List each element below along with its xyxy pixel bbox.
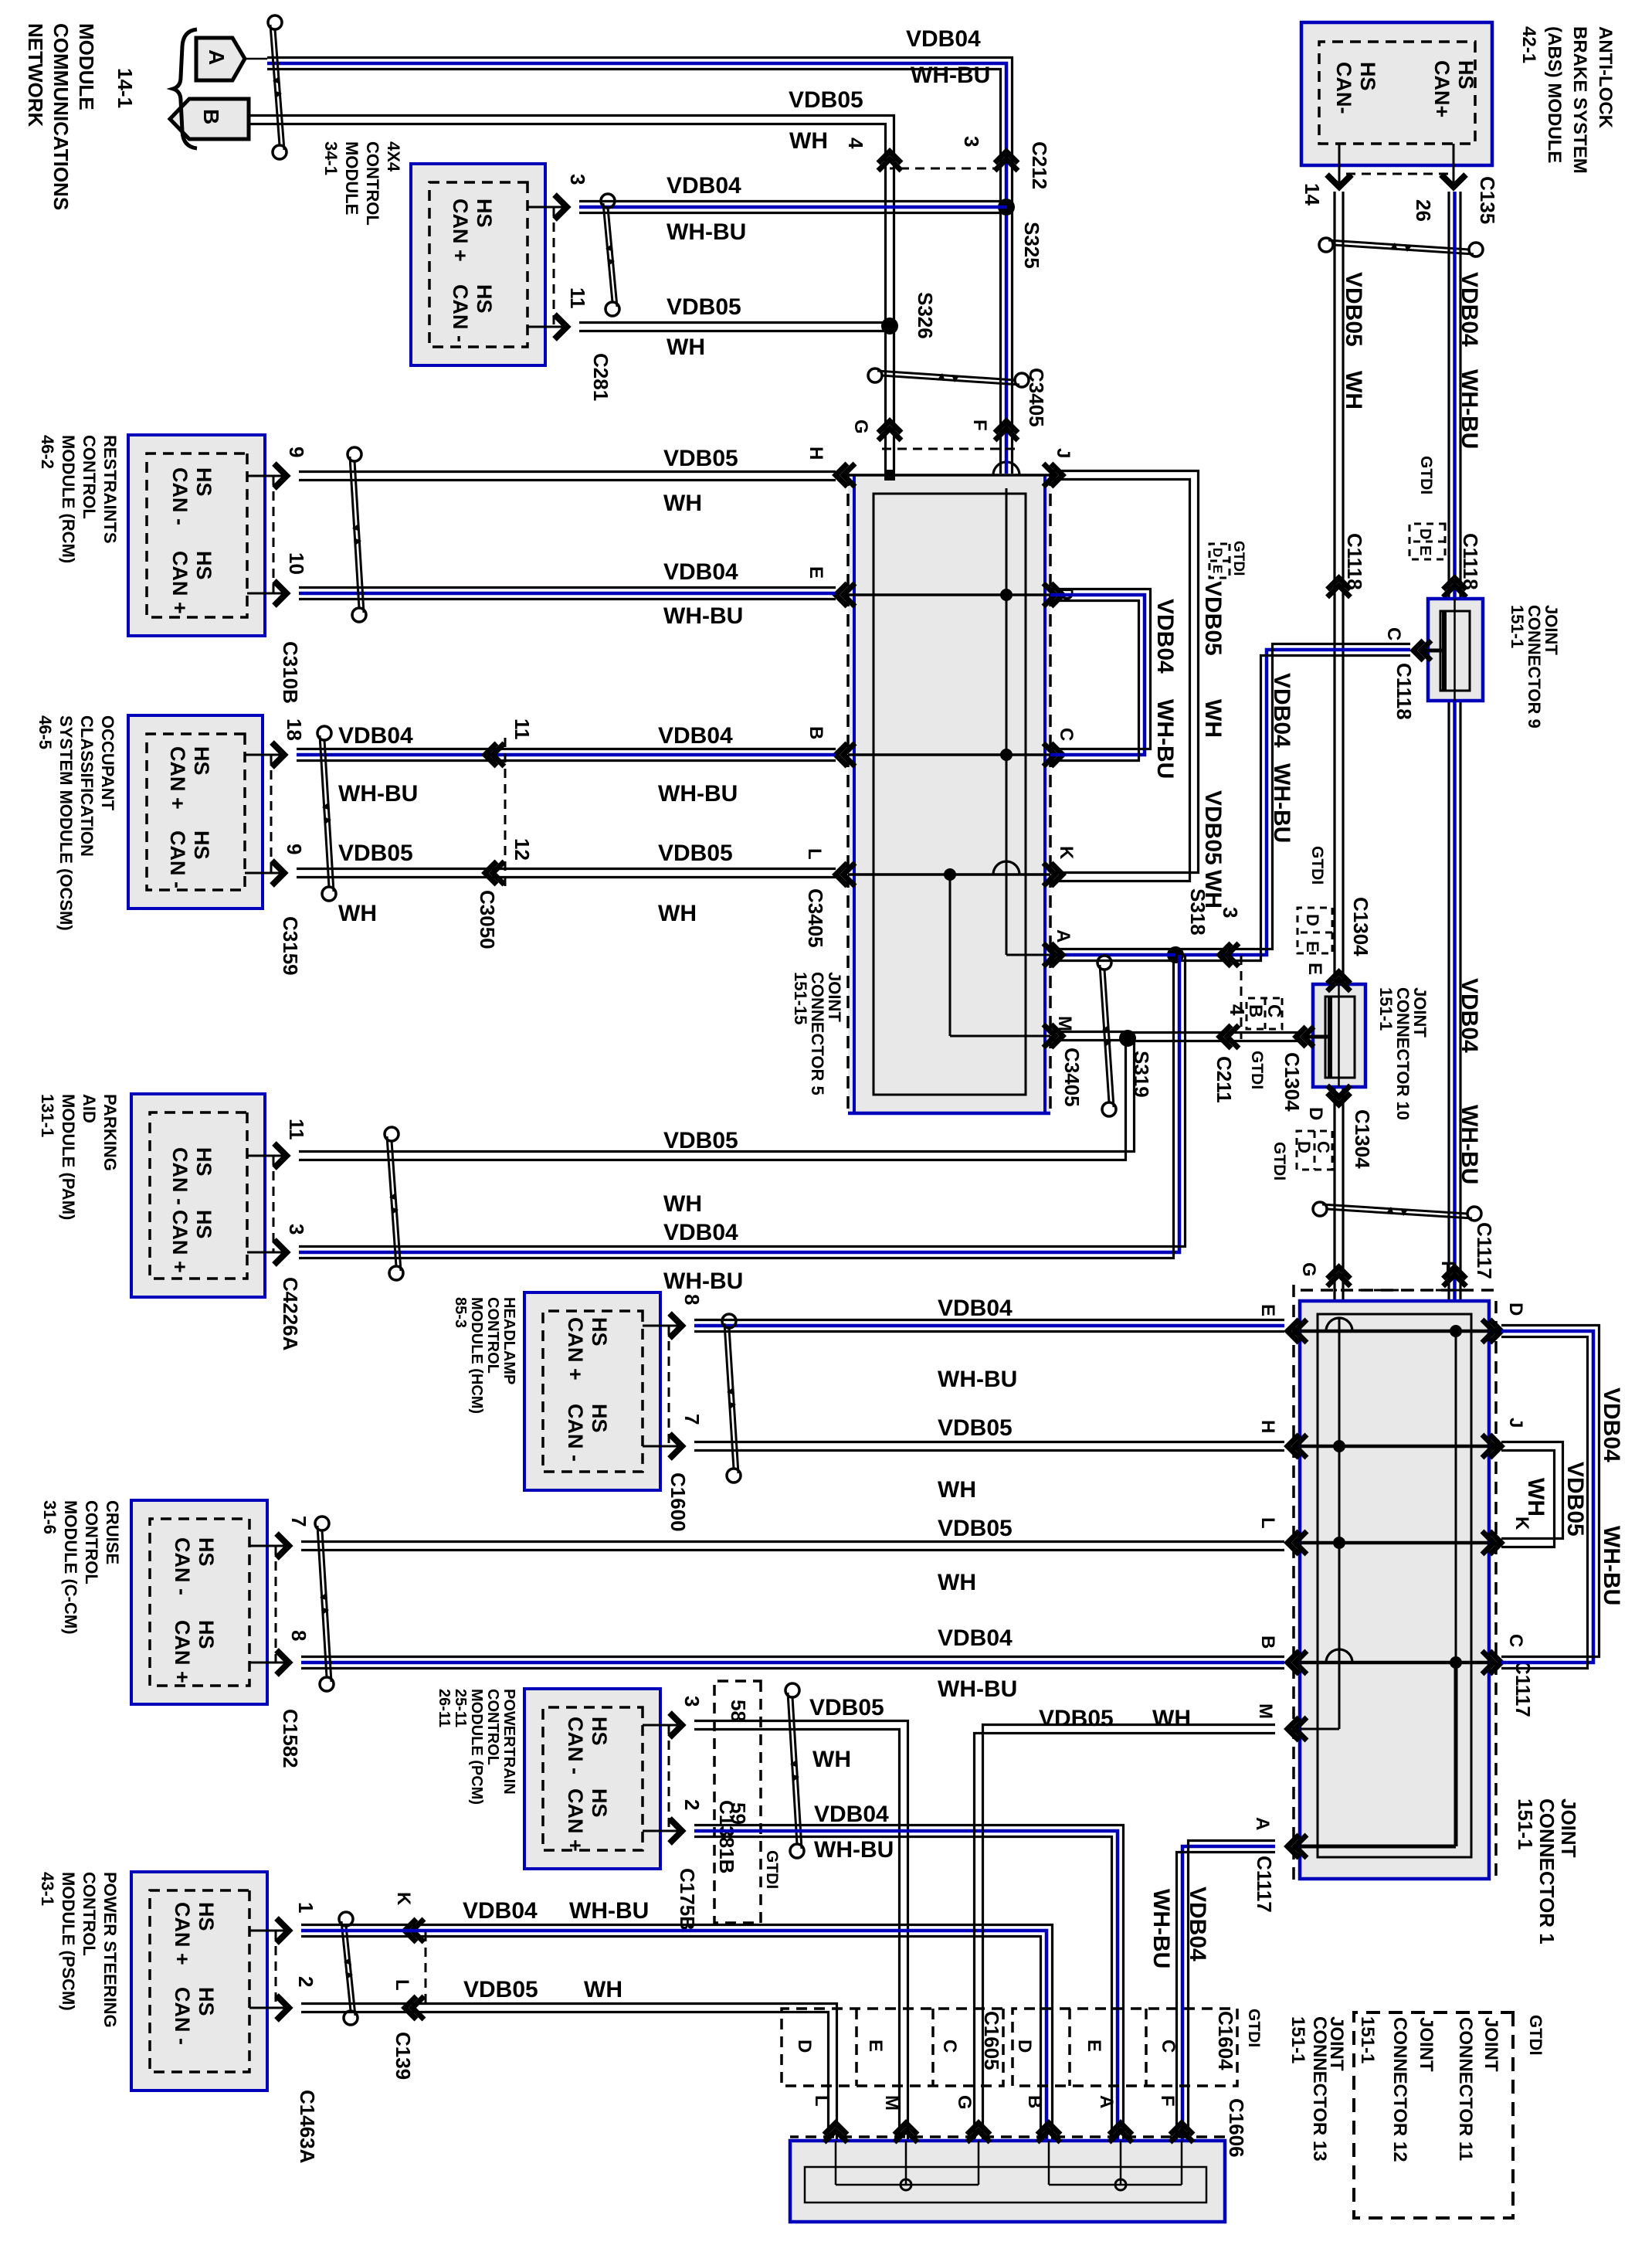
svg-text:C1605: C1605 [980, 2011, 1003, 2070]
svg-text:JOINT: JOINT [1416, 2017, 1437, 2072]
svg-text:9: 9 [285, 447, 308, 457]
svg-text:WH-BU: WH-BU [663, 1269, 743, 1294]
connector C1605 dashed box [782, 2009, 1003, 2086]
svg-text:JOINT: JOINT [1481, 2017, 1501, 2072]
svg-text:M: M [1255, 1703, 1276, 1719]
joint connector 5 internal line to M [949, 875, 952, 1036]
bowtie on RCM wires [348, 447, 361, 461]
dashed line at JC1 left entry [1334, 1289, 1460, 1292]
svg-text:VDB05: VDB05 [1039, 1706, 1114, 1731]
svg-text:D: D [1303, 914, 1322, 926]
svg-text:58: 58 [727, 1700, 750, 1722]
svg-text:HS: HS [195, 1987, 218, 2016]
wire VDB05 loop JC5-J to JC5-K [1050, 480, 1190, 881]
svg-text:14-1: 14-1 [114, 68, 137, 108]
svg-text:CONNECTOR 11: CONNECTOR 11 [1455, 2017, 1476, 2161]
svg-text:JOINT: JOINT [1557, 1798, 1580, 1858]
connector C3405 dashed line [882, 448, 1015, 450]
svg-text:C1117: C1117 [1473, 1222, 1496, 1279]
svg-text:CAN +: CAN + [171, 1902, 194, 1965]
svg-text:CONTROL: CONTROL [484, 1297, 501, 1374]
svg-text:GTDI: GTDI [1245, 2009, 1263, 2047]
svg-text:WH: WH [1341, 371, 1366, 409]
svg-text:WH-BU: WH-BU [658, 781, 738, 807]
joint connector 1 link H-L-M row [1338, 1318, 1341, 1729]
svg-text:VDB04: VDB04 [463, 1898, 538, 1924]
svg-text:CAN +: CAN + [168, 551, 192, 614]
bowtie on HCM wires [722, 1314, 736, 1328]
joint connector 5 left bus H-J [848, 474, 1050, 477]
svg-text:CAN -: CAN - [168, 1147, 192, 1205]
svg-text:WH-BU: WH-BU [663, 603, 743, 629]
svg-text:CAN +: CAN + [166, 746, 189, 810]
svg-text:WH: WH [658, 901, 697, 926]
joint connector 1 bus H-J [1300, 1445, 1489, 1449]
svg-text:HS: HS [195, 1620, 218, 1649]
svg-text:C1117: C1117 [1253, 1856, 1276, 1913]
connector C211 dashed line [1240, 956, 1243, 1039]
wire VDB04 JC9-C to S318 via C211-3 [1179, 650, 1410, 955]
joint connector 11/12/13 box [790, 2141, 1225, 2222]
svg-text:CAN -: CAN - [449, 284, 472, 342]
connector C3405 bowtie on M wire [1097, 956, 1111, 970]
svg-text:43-1: 43-1 [38, 1872, 57, 1906]
wire VDB05 PSCM-2 to bottom JC box L [301, 2012, 829, 2141]
svg-text:HS: HS [192, 551, 215, 580]
svg-text:VDB05: VDB05 [938, 1415, 1013, 1441]
bottom box dashed line [790, 2135, 1225, 2138]
svg-text:CONNECTOR 1: CONNECTOR 1 [1535, 1798, 1559, 1944]
svg-text:J: J [1505, 1418, 1526, 1428]
svg-text:2: 2 [294, 1976, 317, 1987]
svg-text:CAN +: CAN + [168, 1210, 192, 1273]
svg-text:G: G [1298, 1262, 1319, 1277]
svg-text:CLASSIFICATION: CLASSIFICATION [77, 715, 97, 857]
joint connector 9 box [1428, 599, 1483, 701]
svg-text:11: 11 [566, 287, 589, 309]
wire VDB04 from connector-A to S325/F row [267, 63, 1006, 474]
brace for module communications network [173, 29, 197, 148]
svg-text:WH: WH [663, 1191, 702, 1217]
bowtie on PCM wires [785, 1683, 799, 1697]
svg-text:HS: HS [588, 1317, 611, 1347]
connector C139 dashed line [425, 1932, 427, 2002]
connector bowtie on ABS wires [1469, 243, 1483, 256]
svg-text:WH: WH [789, 128, 828, 154]
svg-text:C211: C211 [1213, 1056, 1236, 1103]
connector B flag [170, 99, 249, 139]
svg-text:C: C [1314, 1141, 1333, 1153]
connector C1604 dashed box [1013, 2009, 1237, 2086]
joint connector 5 junction dots [1000, 589, 1013, 601]
svg-text:25-11: 25-11 [452, 1689, 469, 1727]
connector C1118-E arrow on w14 [1328, 578, 1351, 589]
splice S319 [1119, 1030, 1136, 1047]
svg-text:M: M [881, 2095, 902, 2111]
bottom box pins [824, 2123, 847, 2135]
svg-text:L: L [804, 848, 825, 860]
svg-text:(ABS) MODULE: (ABS) MODULE [1544, 26, 1565, 163]
bowtie on 4X4 wires [601, 194, 615, 208]
svg-text:VDB05: VDB05 [658, 841, 733, 866]
connector C135 dashed line [1345, 173, 1448, 175]
wire VDB05 PCM-3 to bottom JC box M [694, 1730, 900, 2141]
svg-text:OCCUPANT: OCCUPANT [98, 715, 117, 811]
svg-text:26: 26 [1412, 199, 1435, 222]
svg-text:G: G [850, 419, 871, 434]
module HCM connector dashed line [668, 1326, 670, 1446]
svg-text:8: 8 [680, 1294, 704, 1305]
GTDI D/E dashed box C1304 [1298, 908, 1332, 953]
svg-text:3: 3 [680, 1696, 704, 1707]
svg-text:MODULE (HCM): MODULE (HCM) [468, 1297, 485, 1414]
svg-text:B: B [1257, 1635, 1278, 1649]
wire VDB05 OCSM-9 to JC5-L [297, 876, 836, 878]
svg-text:HS: HS [588, 1717, 611, 1746]
connector A flag [196, 38, 245, 80]
svg-text:151-1: 151-1 [1357, 2016, 1378, 2063]
svg-text:E: E [806, 566, 826, 579]
module OCSM connector dashed line [270, 755, 273, 873]
svg-text:MODULE (RCM): MODULE (RCM) [59, 435, 78, 563]
joint connector 1 inner rect [1318, 1314, 1471, 1857]
svg-text:M: M [1054, 1016, 1075, 1031]
splice S318 [1167, 946, 1184, 963]
svg-text:CONTROL: CONTROL [484, 1689, 501, 1765]
svg-text:E: E [1303, 941, 1322, 953]
connector C3405-G arrow [878, 421, 901, 433]
svg-text:8: 8 [287, 1630, 310, 1641]
svg-text:C3159: C3159 [279, 916, 302, 976]
svg-text:S326: S326 [914, 292, 937, 339]
joint connector 9 stub to C1118-C [1424, 649, 1444, 653]
svg-text:31-6: 31-6 [40, 1500, 59, 1534]
connector C212-3 arrow [995, 151, 1018, 163]
svg-text:VDB04: VDB04 [938, 1296, 1013, 1321]
module PAM box [131, 1094, 265, 1297]
svg-text:GTDI: GTDI [763, 1850, 781, 1889]
wire VDB04 S318 branch to PAM-3 [299, 955, 1179, 1252]
svg-text:GTDI: GTDI [1526, 2015, 1545, 2056]
wire VDB04 loop JC5-D to JC5-C [1050, 595, 1145, 755]
svg-text:WH-BU: WH-BU [1457, 369, 1482, 449]
svg-text:C1600: C1600 [667, 1472, 690, 1532]
connector C1304-D arrow on w14 (right of JC10) [1328, 1093, 1351, 1105]
bowtie on PAM wires [385, 1127, 399, 1141]
svg-text:CAN +: CAN + [564, 1317, 587, 1381]
svg-text:HS: HS [473, 199, 496, 228]
svg-text:11: 11 [285, 1119, 308, 1140]
module PCM connector dashed line [668, 1725, 670, 1831]
svg-text:A: A [1252, 1817, 1273, 1830]
svg-text:WH-BU: WH-BU [338, 781, 418, 807]
wire VDB04 OCSM-18 to JC5-B [297, 753, 836, 757]
module RCM box [128, 435, 265, 636]
svg-text:34-1: 34-1 [321, 141, 341, 175]
svg-text:MODULE (PCM): MODULE (PCM) [468, 1689, 485, 1805]
svg-text:C: C [1505, 1634, 1526, 1647]
wire VDB05 M-row JC5-M to S319 [1050, 1039, 1128, 1041]
joint connector 5 pins top J D C K A M [1051, 464, 1063, 487]
svg-text:WH: WH [338, 901, 377, 926]
wire VDB05 ABS pin14 to JC1-G (w14 bus) [1333, 192, 1335, 1301]
svg-text:CONTROL: CONTROL [80, 1872, 99, 1956]
joint connector 5 bus L-K [848, 873, 1050, 876]
svg-text:G: G [954, 2095, 975, 2110]
svg-text:WH: WH [1200, 699, 1226, 738]
svg-text:MODULE (C-CM): MODULE (C-CM) [61, 1500, 80, 1635]
svg-text:PARKING: PARKING [100, 1094, 120, 1171]
wire VDB04 loop JC1-D to JC1-C [1501, 1331, 1593, 1663]
joint connector 5 square tap G [884, 470, 895, 481]
wire VDB05 loop JC1-J to JC1-K [1501, 1451, 1555, 1547]
svg-text:CONNECTOR 12: CONNECTOR 12 [1389, 2017, 1410, 2162]
svg-text:WH: WH [938, 1570, 976, 1595]
svg-text:BRAKE SYSTEM: BRAKE SYSTEM [1569, 26, 1590, 174]
svg-text:C1582: C1582 [279, 1709, 302, 1768]
svg-text:F: F [969, 419, 990, 431]
svg-text:3: 3 [566, 174, 589, 185]
svg-text:VDB05: VDB05 [809, 1695, 884, 1720]
joint connector 5 box [848, 474, 1050, 1115]
svg-text:WH-BU: WH-BU [1269, 763, 1294, 843]
joint connector 1 bus B-C [1300, 1661, 1489, 1665]
svg-text:MODULE (PAM): MODULE (PAM) [59, 1094, 78, 1220]
wire VDB05 from connector-B to S326/G row [249, 124, 886, 470]
svg-text:B: B [1024, 2095, 1045, 2108]
joint connector 1 dots [1450, 1325, 1462, 1337]
svg-text:VDB05: VDB05 [938, 1516, 1013, 1541]
svg-text:42-1: 42-1 [1518, 26, 1539, 63]
bowtie on PSCM wires [339, 1912, 353, 1926]
connector C1381B dashed box [714, 1681, 761, 1923]
svg-text:C: C [1383, 627, 1404, 640]
svg-text:POWER STEERING: POWER STEERING [100, 1872, 120, 2028]
svg-text:WH-BU: WH-BU [1152, 699, 1178, 779]
svg-text:WH-BU: WH-BU [938, 1367, 1017, 1392]
wire VDB04 PSCM-1 to bottom JC box B [301, 1931, 1046, 2141]
svg-text:K: K [393, 1892, 414, 1906]
svg-text:VDB05: VDB05 [1562, 1462, 1588, 1537]
module RCM connector dashed line [273, 476, 275, 593]
svg-text:1: 1 [294, 1902, 317, 1913]
svg-text:VDB05: VDB05 [663, 446, 738, 471]
svg-text:HS: HS [192, 1210, 215, 1239]
svg-text:WH-BU: WH-BU [1148, 1889, 1174, 1968]
svg-text:C3050: C3050 [476, 890, 499, 949]
svg-text:C1463A: C1463A [296, 2090, 319, 2164]
svg-text:C212: C212 [1028, 141, 1051, 189]
module PAM connector dashed line [273, 1156, 275, 1252]
joint connector 1 thick link to A [1454, 1663, 1458, 1846]
svg-text:HS: HS [192, 467, 215, 497]
svg-text:GTDI: GTDI [1270, 1142, 1288, 1180]
svg-text:C: C [1056, 728, 1077, 741]
svg-text:C281: C281 [589, 353, 612, 401]
svg-text:9: 9 [283, 844, 306, 854]
svg-text:VDB04: VDB04 [906, 26, 981, 52]
svg-text:7: 7 [680, 1414, 704, 1425]
svg-text:C1118: C1118 [1459, 533, 1482, 590]
svg-text:C1118: C1118 [1392, 663, 1416, 720]
svg-text:151-1: 151-1 [1287, 2016, 1308, 2063]
splice S326 [881, 318, 898, 335]
svg-text:D: D [794, 2040, 815, 2053]
connector C1118-E arrow on w26 [1443, 578, 1467, 589]
svg-text:46-2: 46-2 [38, 435, 57, 469]
svg-text:18: 18 [283, 718, 306, 741]
joint connector 1 pins bottom [1287, 1319, 1299, 1343]
svg-text:VDB05: VDB05 [789, 87, 863, 113]
svg-text:HS: HS [588, 1404, 611, 1433]
svg-text:C3405: C3405 [1060, 1048, 1084, 1107]
svg-text:HS: HS [473, 284, 496, 314]
svg-text:K: K [1511, 1516, 1532, 1530]
svg-text:NETWORK: NETWORK [24, 23, 47, 127]
svg-text:D: D [1294, 1141, 1314, 1153]
svg-text:E: E [1084, 2040, 1104, 2052]
svg-text:VDB04: VDB04 [1185, 1887, 1210, 1961]
svg-text:4: 4 [844, 138, 867, 149]
wire VDB05 4-row S319 up to JC10 stub [1128, 1040, 1299, 1042]
svg-text:VDB04: VDB04 [1457, 978, 1482, 1053]
svg-text:D: D [1305, 1107, 1326, 1120]
wire VDB05 4X4-11 to S326 [579, 330, 890, 332]
connector C1117 bowtie [1467, 1207, 1481, 1221]
svg-text:POWERTRAIN: POWERTRAIN [500, 1689, 517, 1795]
bowtie on OCSM wires [317, 726, 331, 740]
svg-text:26-11: 26-11 [436, 1689, 453, 1727]
splice S325 [998, 199, 1015, 216]
svg-text:CAN -: CAN - [168, 467, 192, 525]
svg-text:C175B: C175B [676, 1868, 699, 1931]
svg-text:VDB05: VDB05 [1200, 790, 1226, 865]
svg-text:131-1: 131-1 [38, 1094, 57, 1137]
svg-text:H: H [806, 447, 826, 460]
svg-text:11: 11 [511, 718, 534, 740]
svg-text:WH: WH [938, 1477, 976, 1503]
svg-text:VDB05: VDB05 [1341, 272, 1366, 347]
joint connector 1 bus L-K [1300, 1541, 1489, 1545]
svg-text:CONNECTOR 13: CONNECTOR 13 [1309, 2016, 1330, 2162]
svg-text:CAN-: CAN- [1332, 62, 1355, 114]
svg-text:HS: HS [190, 746, 213, 776]
svg-text:VDB04: VDB04 [1152, 599, 1178, 674]
svg-text:VDB04: VDB04 [663, 1220, 738, 1245]
wire VDB04 HCM-8 to JC1-E [694, 1324, 1284, 1328]
module 4X4 connector dashed line [553, 207, 555, 327]
GTDI D/E dashed box (w26) [1409, 524, 1445, 559]
wire VDB04 C-CM-8 to JC1-B [301, 1661, 1284, 1665]
svg-text:CONTROL: CONTROL [80, 435, 99, 519]
svg-text:VDB04: VDB04 [1269, 673, 1294, 748]
svg-text:B: B [1245, 1004, 1266, 1017]
svg-text:CAN -: CAN - [166, 830, 189, 888]
svg-text:C4226A: C4226A [279, 1277, 302, 1351]
svg-text:WH: WH [812, 1747, 851, 1772]
module C-CM box [131, 1500, 267, 1704]
joint connector 5 internal line F row [1006, 488, 1008, 955]
svg-text:12: 12 [511, 838, 534, 861]
svg-text:K: K [1056, 846, 1077, 860]
connector C3405-F arrow [995, 421, 1018, 433]
svg-text:VDB05: VDB05 [463, 1977, 538, 2002]
svg-text:J: J [1053, 448, 1074, 458]
svg-text:CONTROL: CONTROL [82, 1500, 101, 1584]
svg-text:C1304: C1304 [1351, 1109, 1374, 1169]
svg-text:C1118: C1118 [1343, 533, 1366, 590]
svg-text:GTDI: GTDI [1248, 1051, 1266, 1089]
svg-text:MODULE (PSCM): MODULE (PSCM) [59, 1872, 78, 2011]
module 4X4 box [411, 164, 545, 365]
wire VDB05 RCM-9 to JC5-H [299, 479, 836, 481]
svg-text:MODULE: MODULE [75, 23, 98, 110]
wire VDB04 PCM-2 to bottom JC box A [694, 1831, 1118, 2141]
svg-text:D: D [1416, 528, 1433, 539]
svg-text:C3405: C3405 [804, 888, 827, 948]
wire VDB04 ABS pin26 to JC1-F (w26 bus) [1453, 192, 1457, 1301]
svg-text:CAN -: CAN - [171, 1537, 194, 1595]
connector C212-4 arrow [878, 151, 901, 163]
joint connector 10 stub to C1304 [1307, 1035, 1330, 1039]
svg-text:CONTROL: CONTROL [363, 141, 382, 226]
svg-text:4X4: 4X4 [384, 141, 403, 172]
module HCM box [524, 1292, 660, 1490]
svg-text:VDB04: VDB04 [814, 1802, 889, 1827]
wire VDB04 A-row JC5-A to S318 [1050, 953, 1175, 957]
module OCSM box [128, 715, 263, 909]
svg-text:GTDI: GTDI [1308, 846, 1326, 885]
svg-text:CAN +: CAN + [171, 1620, 194, 1683]
svg-text:D: D [1014, 2040, 1035, 2053]
svg-text:B: B [806, 726, 826, 739]
svg-text:C1606: C1606 [1225, 2098, 1248, 2158]
svg-text:WH: WH [584, 1977, 622, 2002]
module ABS (Anti-lock Brake System) box [1301, 22, 1492, 165]
svg-text:CAN -: CAN - [564, 1717, 587, 1775]
svg-text:C: C [939, 2040, 960, 2053]
svg-text:VDB04: VDB04 [667, 173, 741, 199]
svg-text:L: L [811, 2095, 832, 2107]
svg-text:GTDI: GTDI [1230, 541, 1247, 576]
bowtie on A/B wires [268, 15, 282, 29]
svg-text:WH-BU: WH-BU [814, 1837, 894, 1863]
svg-text:AID: AID [80, 1094, 99, 1123]
module ABS pin stubs [1453, 144, 1455, 182]
svg-text:VDB05: VDB05 [663, 1128, 738, 1153]
svg-text:WH: WH [663, 491, 702, 516]
svg-text:L: L [1257, 1517, 1278, 1529]
svg-text:2: 2 [680, 1799, 704, 1810]
svg-text:VDB04: VDB04 [938, 1625, 1013, 1651]
svg-text:3: 3 [1219, 907, 1242, 918]
svg-text:A: A [205, 49, 229, 65]
svg-text:D: D [1505, 1303, 1526, 1316]
connector C139-K arrow [405, 1919, 416, 1942]
svg-text:VDB04: VDB04 [338, 723, 413, 749]
svg-text:HS: HS [1454, 60, 1477, 90]
connector C3050 dashed line [504, 738, 507, 888]
svg-text:WH: WH [1200, 870, 1226, 909]
connector C139-L arrow [405, 1996, 416, 2019]
svg-text:VDB05: VDB05 [667, 294, 741, 320]
wire VDB04 4X4-3 to S325 [579, 205, 1006, 209]
module C-CM connector dashed line [275, 1546, 277, 1663]
svg-text:VDB05: VDB05 [338, 841, 413, 866]
svg-text:HS: HS [192, 1147, 215, 1177]
svg-text:C139: C139 [392, 2032, 415, 2080]
svg-text:VDB04: VDB04 [658, 723, 733, 749]
